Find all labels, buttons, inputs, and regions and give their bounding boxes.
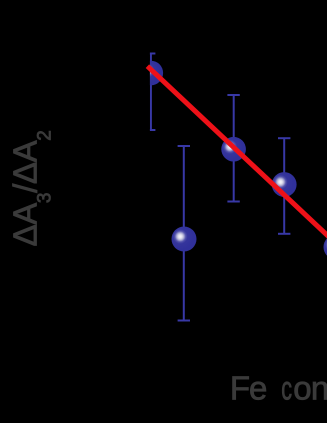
data point 2 [221,137,246,162]
data point 1 [139,61,164,86]
data point 5 (clipped at right edge) [324,235,327,260]
error bar 4 [178,146,190,321]
svg-text:c: c [281,370,292,407]
y-axis label [7,131,56,247]
fit line [147,66,327,241]
error bar 2 [227,95,239,202]
data point 4 [172,227,197,252]
svg-text:o: o [293,370,311,407]
error bar 3 [278,138,290,234]
svg-text:e: e [249,370,267,407]
error bar 1 [145,54,156,131]
x-axis label [230,370,327,407]
svg-text:F: F [230,370,250,407]
svg-text:ncentration (mM): ncentration (mM) [311,370,327,407]
data point 3 [272,172,297,197]
